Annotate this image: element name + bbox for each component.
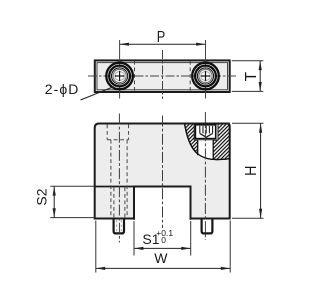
svg-text:T: T: [243, 71, 260, 81]
svg-text:S2: S2: [34, 188, 50, 205]
svg-text:2-ϕD: 2-ϕD: [45, 81, 80, 97]
svg-text:0: 0: [161, 235, 166, 245]
svg-text:W: W: [154, 250, 168, 266]
svg-text:H: H: [243, 165, 260, 176]
svg-text:P: P: [157, 29, 166, 46]
